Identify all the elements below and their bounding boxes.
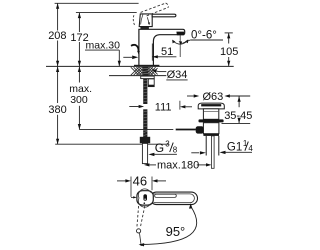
handle neck [140,27,149,30]
dimension 46 [117,177,166,199]
svg-text:Ø63: Ø63 [203,91,224,103]
handle inner left arc [141,15,143,25]
svg-text:300: 300 [70,94,88,106]
G3/8 nut [140,137,150,143]
svg-text:105: 105 [220,46,238,58]
stream angle arcs [172,39,188,44]
drain body lower [203,123,219,134]
svg-text:8: 8 [173,146,178,155]
handle inner right arrow [147,17,150,25]
svg-text:95°: 95° [166,224,186,239]
dimension max.300 vertical line [78,67,81,130]
pivot body top view [137,191,153,205]
countertop bottom line [109,75,166,77]
pivot inner arc [138,189,150,207]
countertop section hatch [131,67,158,75]
svg-text:Ø34: Ø34 [167,69,188,81]
drain body joint line [204,110,218,112]
dimension 105 [225,33,233,66]
dashed lever rotated position [137,206,145,228]
svg-text:4: 4 [248,144,253,153]
svg-text:35-45: 35-45 [224,110,252,122]
svg-text:51: 51 [161,46,173,58]
svg-text:max.180: max.180 [157,159,199,171]
drain body upper [203,109,218,120]
drain bottom nut [203,134,219,136]
extension line supply end y144 [55,143,169,145]
pivot small dot [144,202,146,204]
label G 3/8 with underline leader [148,139,177,156]
lever tip circle rotated [137,229,141,233]
dimension 380 vertical line [56,67,59,145]
lever arm top view [150,192,197,205]
countertop top line [46,65,234,67]
label max.300 [69,83,92,106]
dimension 51 [152,44,176,61]
dashed lever raised position [141,3,169,16]
lever bar side view [152,14,176,17]
supply tube [142,143,147,163]
faucet base plate [134,65,159,67]
svg-text:3: 3 [165,139,170,148]
handle block [139,14,152,27]
arrow pointing at body left wall [123,56,138,60]
shank through countertop [143,67,149,76]
svg-text:111: 111 [155,101,172,113]
drain flange [198,103,224,109]
svg-text:208: 208 [48,30,66,42]
drain tailpipe [206,136,219,156]
extension line top for dim 172 [76,12,137,14]
actuation rod horizontal [176,129,196,131]
aerator [176,32,184,36]
lever slot top view [155,194,177,197]
threaded shank [143,79,147,138]
svg-text:G: G [155,141,164,155]
extension line hose end y129 [79,129,173,131]
J-hook curved mark on body [131,45,140,54]
dimension 111 [129,101,192,110]
label 0-6 degrees underlined with leader [179,30,223,45]
svg-text:46: 46 [133,173,147,188]
dimension diameter 63 [187,94,250,97]
svg-text:380: 380 [48,104,66,116]
faucet body outline [139,29,185,66]
side knob on drain [196,126,204,133]
washer below deck [141,76,155,79]
svg-text:G1: G1 [227,141,242,153]
stream center line [179,35,181,57]
tip extension line [140,233,142,246]
95 degree arc [139,203,197,246]
drain gasket ring [199,119,224,122]
label max.30 underlined [85,40,121,67]
pivot white dot [144,199,145,200]
pivot dark slot [143,194,147,201]
drain pull rod [211,136,214,168]
side stud on shank [148,79,154,87]
lever arm inner lines [154,194,195,203]
dimension max.180 [144,163,212,166]
label diameter 34 with leader [152,69,188,80]
dimension 172 vertical line [78,13,81,67]
dimension 208 vertical line [56,3,59,66]
label G 1 1/4 with arrows [191,151,252,155]
dimension 35-45 [222,96,251,123]
extension line top for dim 208 [55,2,139,4]
dashed swing arc at handle left [133,15,135,26]
